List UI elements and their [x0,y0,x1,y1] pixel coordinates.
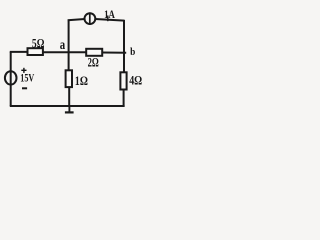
svg-text:4Ω: 4Ω [129,73,142,87]
resistor R 2ohm [86,49,102,56]
wire: node a to 2ohm [69,51,87,53]
svg-text:2Ω: 2Ω [88,55,99,69]
wire: top horizontal left of current source [68,19,85,20]
wire: 5ohm to node a [43,51,70,53]
current source I1 circle [85,13,96,24]
wire: 2ohm to node b [102,52,126,54]
svg-text:5Ω: 5Ω [32,37,45,51]
wire: 4ohm to bottom [123,90,125,107]
resistor R 4ohm [120,72,126,89]
svg-text:b: b [130,46,135,58]
svg-text:a: a [60,37,66,52]
svg-text:15V: 15V [20,71,34,85]
label + (plus of source) [21,69,26,71]
wire: right vertical branch [123,20,125,72]
ground stem [68,106,70,112]
arrow stem under 1 [107,16,109,22]
resistor R 1ohm [66,70,72,87]
label - (minus of source) [22,87,27,89]
background [0,0,152,116]
resistor R 5ohm [28,48,43,55]
wire: middle vertical branch (node a / 1ohm / ground) [68,20,70,70]
ground bar [65,111,74,113]
voltage source U1 circle [5,71,17,84]
wire: top horizontal right of current source [95,19,124,21]
wire: bottom horizontal [10,105,125,107]
wire: left vertical branch (source branch) [10,52,12,106]
wire: 1ohm to bottom [68,87,70,106]
svg-text:1Ω: 1Ω [75,74,88,88]
wire: top-left horizontal to 5ohm resistor [10,51,28,53]
current source I1 bar [89,12,91,25]
